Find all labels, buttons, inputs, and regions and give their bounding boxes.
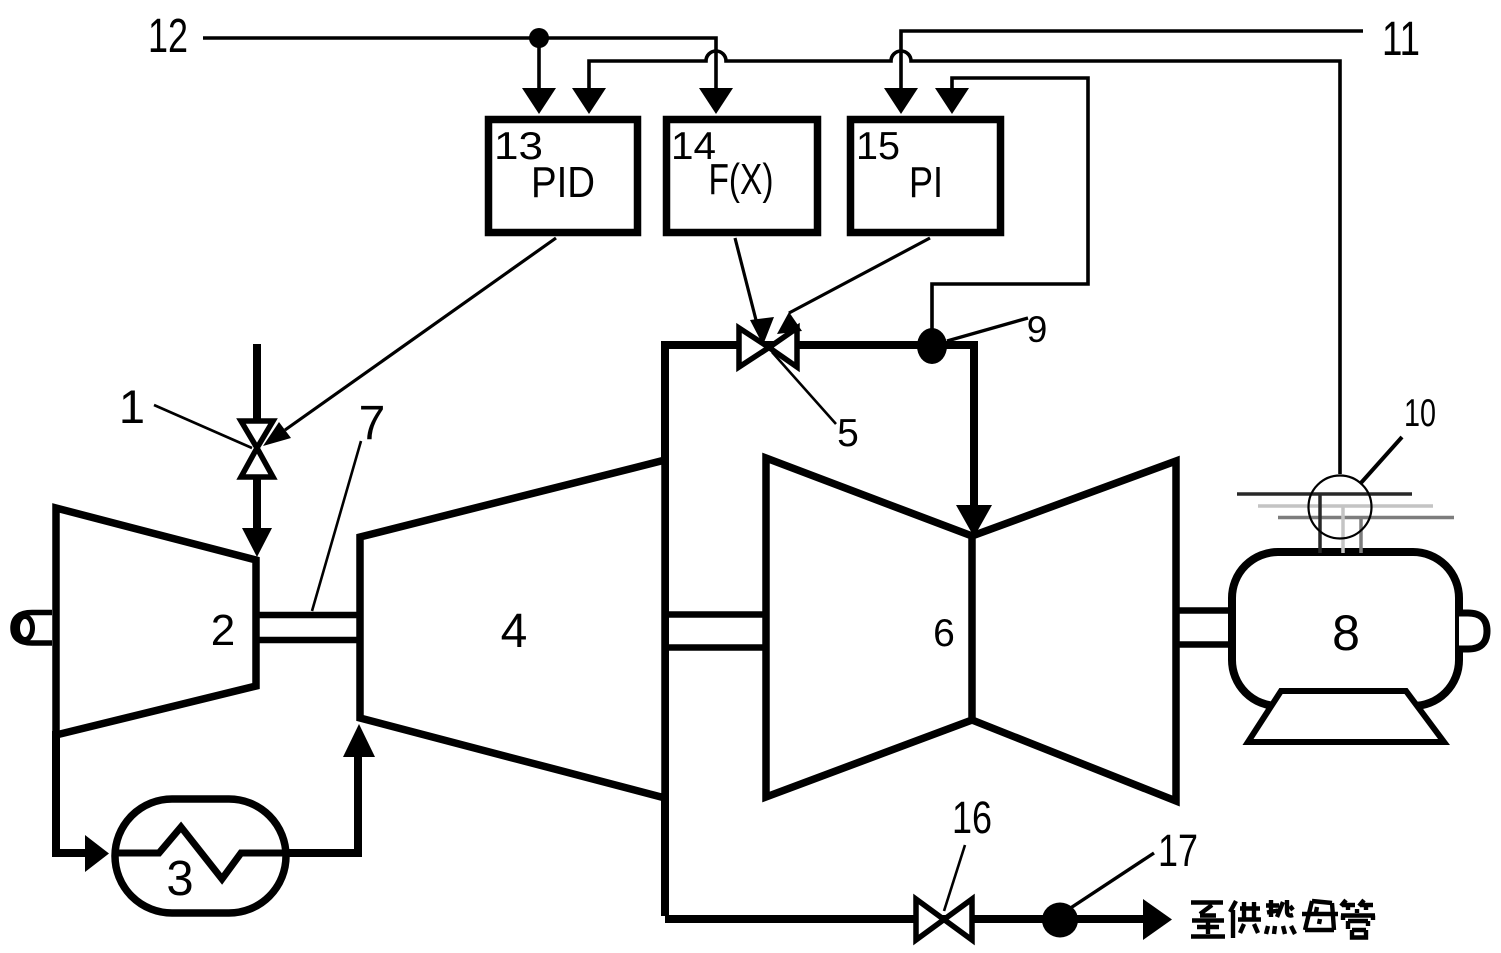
turbine 4 body bbox=[360, 460, 665, 798]
shaft turbine 2 to 4 bbox=[256, 615, 360, 640]
valve 5 bowtie bbox=[739, 328, 797, 367]
svg-text:6: 6 bbox=[933, 612, 955, 655]
svg-text:5: 5 bbox=[837, 412, 859, 455]
char 至 bbox=[1191, 903, 1225, 937]
svg-text:10: 10 bbox=[1404, 392, 1436, 435]
grid drop mid bbox=[1359, 518, 1363, 554]
shaft end ellipse bbox=[18, 617, 33, 640]
pointer line 7 bbox=[312, 441, 361, 611]
control line from box 13 to valve 1 bbox=[285, 238, 556, 430]
wire 12: setpoint line to PID and F(X) bbox=[203, 38, 716, 88]
char 供 bbox=[1230, 901, 1261, 938]
wire: speed line to PID input 2 / PI, with hops, down to sensor 10 bbox=[589, 51, 1340, 474]
pipe: valve 1 to turbine 2 bbox=[253, 477, 261, 529]
arrow into turbine 2 bbox=[242, 528, 272, 557]
node 9 dot bbox=[917, 328, 947, 364]
pointer line 9 bbox=[947, 318, 1028, 341]
heat exchanger 3 body bbox=[115, 799, 286, 913]
svg-text:9: 9 bbox=[1027, 309, 1048, 350]
grid bus line mid bbox=[1278, 516, 1454, 520]
grid bus line dark bbox=[1237, 492, 1412, 496]
svg-text:17: 17 bbox=[1158, 825, 1198, 876]
char 热 bbox=[1266, 900, 1295, 934]
svg-text:16: 16 bbox=[952, 792, 992, 843]
arrow into turbine 6 bbox=[956, 505, 992, 537]
arrow to heating header bbox=[1143, 899, 1172, 940]
svg-text:7: 7 bbox=[359, 397, 386, 450]
wire: PI input 2 loop from node 9 bbox=[932, 78, 1088, 338]
text 至供热母管 (to heating header), hand-drawn strokes bbox=[1191, 900, 1375, 938]
shaft turbine 6 to generator 8 bbox=[1176, 611, 1232, 645]
valve 16 bowtie bbox=[916, 899, 972, 940]
arrow into box 15 input 2 bbox=[935, 88, 969, 114]
svg-text:11: 11 bbox=[1382, 13, 1420, 66]
pipe: turbine 2 exhaust to heat exchanger 3 bbox=[56, 731, 85, 853]
heat exchanger 3 zigzag bbox=[115, 827, 286, 879]
svg-text:PI: PI bbox=[909, 158, 943, 207]
turbine 2 body bbox=[56, 508, 256, 735]
pipe: main steam above valve 1 bbox=[253, 344, 261, 422]
char 管 bbox=[1341, 900, 1375, 938]
svg-text:3: 3 bbox=[166, 852, 193, 906]
svg-text:15: 15 bbox=[856, 125, 900, 168]
generator 8 base bbox=[1248, 691, 1444, 742]
generator 8 body bbox=[1232, 552, 1459, 706]
pipe: heat exchanger 3 to turbine 4 bbox=[286, 757, 358, 853]
grid drop dark bbox=[1318, 494, 1322, 553]
control line from box 15 to valve 5 bbox=[789, 238, 930, 313]
wire: junction down to PID input 1 bbox=[537, 38, 541, 88]
grid bus line light bbox=[1258, 504, 1433, 508]
shaft stub left of turbine 2 bbox=[13, 613, 52, 644]
wire 11: feedback line to PI input 1 bbox=[901, 31, 1363, 88]
arrow into box 13 input 2 bbox=[572, 88, 606, 114]
controller box 13 PID bbox=[489, 120, 638, 233]
pointer line 16 bbox=[944, 845, 965, 911]
arrow into box 15 input 1 bbox=[884, 88, 918, 114]
valve 1 bowtie bbox=[241, 421, 273, 477]
char 母 bbox=[1302, 901, 1338, 930]
controller box 14 F(X) bbox=[667, 120, 818, 233]
svg-text:12: 12 bbox=[148, 10, 188, 63]
turbine 6 body (double flow) bbox=[766, 458, 1176, 801]
arrow into box 14 input bbox=[699, 88, 733, 114]
arrow into box 13 input 1 bbox=[522, 88, 556, 114]
pipe: heating supply bottom bbox=[665, 915, 1143, 923]
arrowhead at valve 5 from box 14 bbox=[750, 317, 774, 345]
pointer line 5 bbox=[772, 352, 836, 424]
shaft turbine 4 to 6 bbox=[669, 615, 766, 648]
svg-text:1: 1 bbox=[119, 380, 145, 433]
pipe: extraction main (vertical, crossover and heating branch) bbox=[665, 345, 974, 916]
svg-text:8: 8 bbox=[1332, 605, 1360, 661]
generator 8 shaft stub right bbox=[1459, 613, 1487, 649]
arrow into heat exchanger 3 bbox=[85, 835, 109, 872]
node 17 dot bbox=[1042, 903, 1078, 938]
svg-text:2: 2 bbox=[211, 606, 235, 655]
sensor 10 circle bbox=[1309, 476, 1372, 539]
pointer line 17 bbox=[1066, 853, 1154, 911]
junction dot on wire 12 bbox=[529, 28, 549, 48]
controller box 15 PI bbox=[851, 120, 1001, 233]
svg-text:PID: PID bbox=[531, 158, 595, 207]
svg-text:F(X): F(X) bbox=[709, 155, 774, 204]
pointer line 10 bbox=[1360, 437, 1402, 484]
svg-text:4: 4 bbox=[501, 605, 528, 658]
grid drop light bbox=[1341, 506, 1345, 553]
arrow into turbine 4 bbox=[343, 724, 375, 757]
arrowhead at valve 5 from box 15 bbox=[777, 312, 802, 334]
arrowhead at valve 1 bbox=[263, 422, 291, 446]
control line from box 14 to valve 5 bbox=[735, 238, 756, 320]
pointer line 1 bbox=[154, 405, 252, 448]
